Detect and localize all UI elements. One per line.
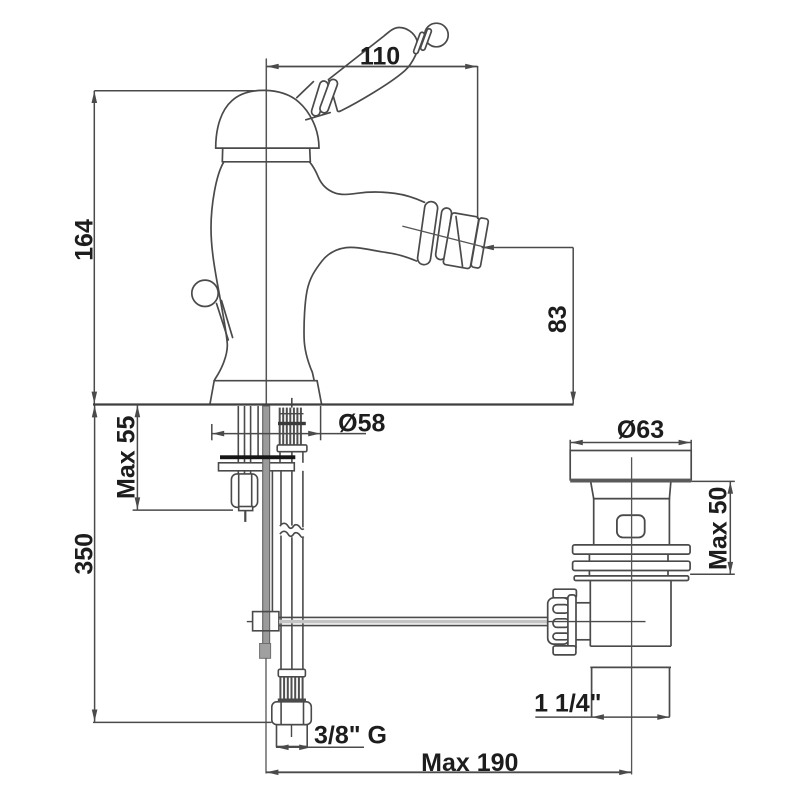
black seal washer bar [220,455,295,459]
dim o63 left tick [569,440,571,450]
clevis right plate [568,595,576,650]
dim o63 line [570,442,691,444]
braid top dark band [278,422,306,425]
pop-up lift rod (grey) [263,406,270,644]
dim 350 bottom extension [93,721,272,723]
arrow 164 bottom [92,392,98,404]
clevis top tab [553,589,576,598]
base plinth right side [317,381,322,405]
handle ring 2 [319,78,339,114]
center axis line of faucet [265,59,267,404]
3/8 supply nut [272,702,312,725]
dim max50 bottom extension [690,573,735,575]
flange plate 1 [573,545,691,554]
spout bottom edge and body right edge [304,247,416,380]
lift rod end cap [260,644,271,659]
arrow o58 right [308,431,320,437]
svg-text:Max 50: Max 50 [705,487,733,570]
arrowheads [92,64,734,775]
arrow 83 bottom [570,392,576,404]
svg-text:164: 164 [71,219,99,261]
arrow o63 right [679,440,691,446]
base plinth left side [210,381,214,405]
spout ring A [417,201,439,266]
base plinth top line [214,380,317,382]
hose bottom ferrule [278,669,305,677]
faucet body left edge [211,162,227,380]
neck between plates 2 [588,571,590,576]
arrow max55 top [135,405,141,417]
dim o58 left tick [211,424,213,440]
braid bottom hatch [280,677,302,699]
dim max55 bottom extension [133,509,233,511]
dim 110 line [266,66,477,68]
hose top ferrule [277,445,307,452]
linkage guide block [253,612,279,631]
drain tailpipe [591,667,593,716]
dim 1 1/4 line [535,716,670,718]
threaded stud lines [237,406,239,474]
spout ring B [435,207,452,260]
arrow max190 right [619,770,631,776]
dimension labels [71,42,733,777]
arrow 110 left [267,64,279,70]
dim 110 right extension line [477,66,479,219]
arrow 110 right [465,64,477,70]
pop-up knob [192,280,218,306]
svg-text:Ø58: Ø58 [338,410,385,438]
collar under dome [221,148,223,162]
braided hose top: stub into body [291,398,293,408]
clevis knurled body [548,598,570,644]
drain tube upper [589,581,591,647]
braid top hatch [280,408,301,445]
svg-text:Ø63: Ø63 [617,416,664,444]
svg-text:3/8" G: 3/8" G [314,722,387,750]
pipe lines below break [280,536,282,670]
aerator inner line [456,217,463,267]
mounting nut [231,474,257,507]
arrow o58 left [212,431,224,437]
stud tail [244,511,246,522]
svg-text:Max 190: Max 190 [421,749,518,777]
arrow 3/8 left [277,745,289,751]
arrow max190 left [266,770,278,776]
collar under nut [239,507,253,511]
arrow max50 top [728,482,734,494]
mounting flange plate [219,463,295,471]
arrow 83 leader [482,245,494,251]
arrow 350 top [92,405,98,417]
arrow 1 1/4 left [592,714,604,720]
overflow window [617,515,645,537]
handle ring 1 [310,80,329,117]
arrow 3/8 right [299,745,311,751]
dim 83 leader line [482,247,574,249]
pipe break wave upper [280,523,304,529]
dim 3/8 line [276,746,364,748]
handle tip ring 2 [420,28,432,51]
svg-text:1 1/4": 1 1/4" [534,689,601,717]
arrow o63 left [571,440,583,446]
linkage bar grey center [279,620,548,624]
dim max55 vertical line [136,405,138,510]
flange plate 2 [573,561,691,570]
washer band above nut [278,699,306,702]
clevis slot 2 [553,619,569,628]
supply thread tailpiece [277,725,308,747]
aerator body [443,212,479,268]
arrow 164 top [92,91,98,103]
linkage bar left stub [247,621,253,623]
linkage axis line over clevis [548,621,646,623]
hose top edge line [280,413,304,415]
spout top edge [310,162,425,203]
pop-up rod to body [217,304,229,341]
spout axis line [403,226,487,248]
handle tip ring 1 [413,32,425,55]
base reference line [93,403,574,405]
pipe break wave lower [280,531,304,537]
clevis bottom tab [553,646,576,655]
linkage bar [279,616,548,618]
svg-text:83: 83 [544,305,572,333]
thin line from rod end to Max190 [265,658,267,773]
flange bottom dark band [570,479,691,483]
svg-text:Max 55: Max 55 [113,416,141,499]
handle lever body [329,27,418,111]
dome base line [216,147,319,149]
svg-text:110: 110 [360,42,400,70]
flange lower lip [591,482,671,498]
dim o58 line [212,433,366,435]
dim max50 vertical line [729,481,731,574]
dim max50 top extension [691,480,735,482]
dim o63 right tick [690,440,692,450]
faucet dome cap [216,90,319,148]
dim o58 right tick [320,406,322,440]
handle neck [297,82,314,98]
supply pipe upper lines (ferrule to plate) [279,452,281,463]
clevis slot 1 [553,605,569,614]
dim 164 top extension line [94,90,254,92]
handle ball [425,23,449,47]
drain body [594,499,670,546]
dim max190 line [266,771,632,773]
neck between plates 1 [588,554,590,561]
dim 164/350 vertical line [93,91,95,404]
aerator right cap [471,218,489,269]
arrow max50 bottom [728,562,734,574]
clevis bracket lines [576,602,590,604]
drain center line [631,457,633,774]
arrow 1 1/4 right [657,714,669,720]
clevis slot 3 [553,633,569,640]
arrow 350 bottom [92,710,98,722]
drain top flange [570,451,691,480]
pipe lines below plate [271,471,273,612]
svg-text:350: 350 [71,533,99,575]
arrow max55 bottom [135,497,141,509]
flange plate 3 [574,576,688,581]
